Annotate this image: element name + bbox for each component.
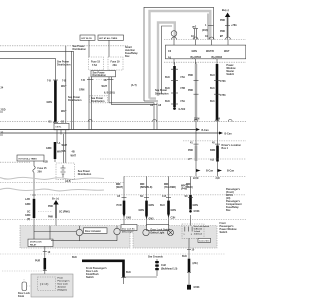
svg-text:LAB: LAB [25,198,30,201]
svg-text:PNK: PNK [48,205,53,208]
svg-text:F5A: F5A [181,76,186,79]
svg-text:WHT: WHT [102,85,108,88]
svg-text:PUR: PUR [35,260,40,263]
svg-text:C2H: C2H [171,217,176,220]
svg-text:20A: 20A [113,64,118,67]
svg-text:(Tailgate): (Tailgate) [58,289,67,292]
svg-text:7-A: 7-A [57,142,61,145]
svg-text:B-Can: B-Can [202,129,210,132]
svg-text:Distribution: Distribution [57,64,71,67]
svg-text:PNK: PNK [220,30,225,33]
svg-text:B-Can: B-Can [227,170,235,173]
svg-text:GRN: GRN [171,209,177,212]
svg-text:GRN: GRN [79,89,85,92]
svg-text:Switch: Switch [226,73,234,76]
svg-text:(2th): (2th) [193,262,198,265]
svg-text:GRN: GRN [139,209,145,212]
svg-text:Knob: Knob [18,295,25,298]
svg-text:GRN: GRN [46,147,52,150]
svg-text:See Grounds: See Grounds [148,256,164,259]
svg-text:GN3: GN3 [126,217,132,220]
svg-text:(203): (203) [202,29,208,32]
svg-text:Box 1: Box 1 [222,147,229,150]
svg-text:Switch: Switch [220,231,228,234]
svg-text:Door Lock: Door Lock [58,283,69,286]
svg-text:4B: 4B [72,151,75,154]
svg-text:Distribution: Distribution [155,93,169,96]
svg-text:WHT/B: WHT/B [206,50,214,53]
svg-text:un2: un2 [192,26,197,29]
svg-text:G-502: G-502 [179,108,186,111]
svg-text:B-Can: B-Can [206,170,214,173]
svg-text:B+ (+): B+ (+) [52,198,59,201]
svg-text:BLK: BLK [72,256,77,259]
svg-text:GRN: GRN [25,214,31,217]
svg-text:GRN: GRN [192,50,198,53]
svg-text:BLK: BLK [126,271,131,274]
svg-text:Control Unit: Control Unit [199,240,210,243]
svg-text:Front: Front [58,277,64,280]
svg-text:C753: C753 [220,94,226,97]
svg-text:C703: C703 [220,80,226,83]
svg-text:B-Can: B-Can [225,133,233,136]
svg-text:BL3: BL3 [210,87,215,90]
svg-text:(WHT): (WHT) [116,186,123,189]
svg-text:PNK: PNK [188,74,193,77]
svg-text:WHT: WHT [57,151,63,154]
svg-text:2GD: 2GD [1,109,6,112]
svg-text:(YEL/RED): (YEL/RED) [164,186,176,189]
svg-text:WHT: WHT [224,50,230,53]
svg-text:Door Lock Sw: Door Lock Sw [122,229,135,231]
svg-text:GRN: GRN [47,101,53,104]
svg-text:G503: G503 [194,210,201,213]
svg-text:BLK: BLK [165,100,170,103]
svg-text:LT*: LT* [188,158,192,161]
svg-text:F5B: F5B [181,87,186,90]
svg-text:WHT: WHT [71,155,77,158]
svg-text:+78A: +78A [231,24,237,27]
svg-text:BLK: BLK [165,76,170,79]
svg-text:B(+)B503: B(+)B503 [191,56,202,59]
svg-text:BL3: BL3 [210,100,215,103]
svg-text:( 1 = 2 ): ( 1 = 2 ) [40,283,49,286]
svg-text:Box: Box [125,55,130,58]
svg-text:7-B: 7-B [81,79,85,82]
svg-text:6 B TL: 6 B TL [56,127,63,129]
svg-text:(Bulkhead 1.5): (Bulkhead 1.5) [161,268,178,271]
svg-text:Distribution: Distribution [93,74,107,77]
svg-text:GRN: GRN [193,204,199,207]
svg-text:Box: Box [226,209,231,212]
svg-text:SC (PNK): SC (PNK) [59,211,70,214]
svg-text:BLU: BLU [160,204,165,207]
svg-text:PNK: PNK [220,19,225,22]
svg-text:1: 1 [184,234,185,236]
svg-text:22,M: 22,M [193,177,198,180]
svg-text:HOT AT ALL TIMES: HOT AT ALL TIMES [19,158,38,161]
svg-text:GN3: GN3 [149,218,155,221]
svg-text:GRN: GRN [25,203,31,206]
svg-text:Switch: Switch [86,276,94,279]
svg-text:2=Unlock: 2=Unlock [194,234,202,236]
svg-text:Distribution: Distribution [78,173,92,176]
svg-text:PUR: PUR [117,204,122,207]
svg-text:Passenger's: Passenger's [58,280,71,283]
svg-text:BLU: BLU [210,74,215,77]
svg-text:7.5A: 7.5A [92,64,97,67]
svg-text:2: 2 [191,234,192,236]
svg-text:G503: G503 [194,286,201,289]
svg-text:F5A: F5A [181,100,186,103]
svg-text:7-B: 7-B [47,80,51,83]
svg-text:B+(+): B+(+) [222,8,229,12]
svg-text:WHT: WHT [62,144,68,147]
svg-text:SC: SC [140,195,144,198]
svg-text:BRN: BRN [210,149,215,152]
svg-text:22,M: 22,M [194,118,199,121]
svg-text:HOT IN ON: HOT IN ON [81,38,92,40]
svg-text:2,M: 2,M [216,177,220,180]
svg-text:PNK: PNK [48,216,53,219]
svg-text:HOT AT ALL TIMES: HOT AT ALL TIMES [99,37,118,40]
svg-text:DOOR LOCK: DOOR LOCK [30,242,42,244]
svg-text:Distribution: Distribution [73,48,87,51]
svg-text:(RED): (RED) [186,186,193,189]
svg-text:4B: 4B [104,79,107,82]
svg-text:RELAY: RELAY [30,244,37,247]
svg-text:6, B (191): 6, B (191) [104,92,115,95]
svg-text:20A: 20A [38,171,43,174]
svg-text:Distribution: Distribution [91,100,105,103]
svg-text:GRN: GRN [149,204,155,207]
svg-text:SC: SC [185,195,189,198]
svg-text:Door Actuator: Door Actuator [85,230,101,233]
svg-text:B(+)B303: B(+)B303 [212,56,223,59]
svg-text:Actuator: Actuator [58,286,67,289]
svg-text:BLK: BLK [182,255,187,258]
svg-text:C-B: C-B [162,195,167,198]
svg-text:Defect Light: Defect Light [151,232,165,235]
svg-text:Distribution: Distribution [68,99,82,102]
svg-text:(A-T): (A-T) [131,84,137,87]
svg-text:PNK: PNK [188,89,193,92]
svg-text:2,M: 2,M [216,118,220,121]
svg-text:PNK: PNK [188,149,193,152]
svg-text:Defect Light: Defect Light [122,231,133,234]
